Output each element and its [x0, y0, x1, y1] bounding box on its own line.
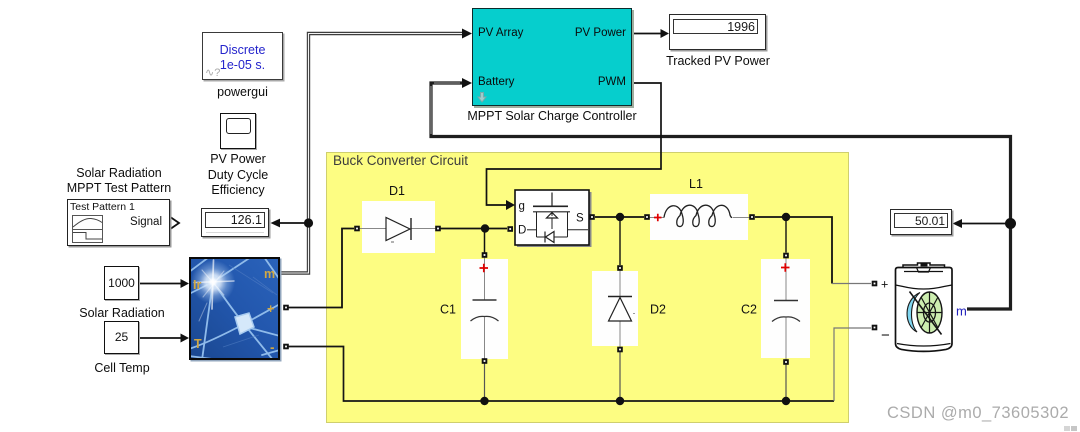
svg-text:L1: L1 — [689, 177, 703, 191]
diode D1 ports — [354, 226, 360, 232]
PV array block (solar panel image) — [189, 257, 280, 360]
signal builder label: Solar Radiation MPPT Test Pattern — [39, 166, 199, 196]
junction: D2 on ground bus — [616, 397, 624, 405]
signal builder block Test Pattern 1 — [67, 199, 170, 246]
wire: PV + to D1 — [288, 229, 354, 308]
svg-text:+: + — [881, 278, 888, 292]
svg-text:C1: C1 — [440, 303, 456, 317]
wire: C1 bottom lead to bus — [484, 363, 486, 401]
scope block (PV Power Duty Cycle Efficiency) — [220, 113, 256, 149]
PV + output port — [283, 305, 289, 311]
inductor L1 ports — [644, 214, 650, 220]
label Tracked PV Power — [658, 54, 778, 70]
MPPT block label — [452, 109, 652, 125]
MPPT Solar Charge Controller block — [472, 8, 632, 106]
wire: junction down to C1 — [484, 229, 486, 253]
wire: junction down to C2 — [785, 217, 787, 253]
capacitor C2 white box — [761, 259, 810, 358]
junction: m bus to display 126.1 — [304, 218, 313, 227]
signal builder output chevron — [171, 218, 179, 229]
capacitor C1 white box — [461, 259, 508, 359]
PV - output port — [283, 344, 289, 350]
scope label — [178, 152, 298, 199]
MOSFET block box — [515, 190, 592, 247]
inductor L1 symbol — [649, 205, 750, 226]
wire: 1000 to Ir — [139, 283, 181, 285]
svg-text:+: + — [267, 302, 274, 316]
capacitor C2 ports — [783, 253, 789, 259]
constant label Cell Temp — [62, 361, 182, 377]
svg-text:Ir: Ir — [193, 278, 201, 292]
constant 1000 — [104, 266, 139, 300]
wire: L1 to battery + corner — [755, 217, 832, 284]
svg-text:m: m — [956, 304, 967, 319]
wire: PV Power to display 1996 — [631, 33, 661, 35]
diode D1 symbol — [359, 218, 436, 243]
wire: D2 bottom lead to bus — [619, 352, 621, 401]
battery - port — [872, 325, 878, 331]
m bus wire: PV m to PV Array input — [281, 34, 462, 274]
svg-text:−: − — [881, 327, 890, 344]
junction: C2 tap — [782, 213, 790, 221]
wire: MOSFET S to L1 — [595, 216, 644, 218]
diode D2 symbol — [608, 270, 635, 347]
diode D2 white box — [592, 271, 638, 346]
PWM wire to gate — [487, 83, 662, 205]
powergui label — [202, 85, 283, 101]
svg-text:-: - — [270, 340, 275, 355]
constant label Solar Radiation — [62, 306, 182, 322]
junction: feedback bus to display 50.01 — [1005, 218, 1016, 229]
capacitor C2 symbol — [772, 258, 800, 360]
svg-text:D: D — [518, 225, 526, 237]
wire: junction down to D2 — [619, 217, 621, 265]
junction: D2 tap — [616, 213, 624, 221]
battery + port — [872, 281, 878, 287]
svg-text:D1: D1 — [389, 184, 405, 198]
wire: junction to display 50.01 — [962, 223, 1010, 225]
svg-text:T: T — [194, 337, 202, 351]
wire: 25 to T — [139, 337, 181, 339]
battery feedback bus: battery m to Battery input — [431, 83, 1011, 309]
diode D1 white box — [362, 201, 435, 253]
display 1996 (Tracked PV Power) — [669, 14, 766, 50]
wire: lead to battery + port — [832, 283, 871, 285]
MOSFET D port — [507, 226, 513, 232]
svg-text:D2: D2 — [650, 303, 666, 317]
Buck Converter Circuit area (yellow) — [326, 152, 849, 423]
area title: Buck Converter Circuit — [333, 153, 468, 169]
svg-text:C2: C2 — [741, 303, 757, 317]
svg-text:g: g — [519, 201, 525, 213]
CSDN watermark — [887, 404, 1069, 423]
junction: C2 on ground bus — [782, 397, 790, 405]
powergui block — [202, 32, 283, 80]
inductor L1 white box — [650, 194, 748, 240]
constant 25 — [104, 321, 139, 354]
junction: C1 on ground bus — [480, 397, 488, 405]
wire: C2 bottom lead to bus — [785, 364, 787, 401]
display 126.1 — [201, 208, 269, 237]
wire: junction to display 126.1 — [280, 222, 308, 224]
svg-text:m: m — [264, 267, 275, 281]
battery logo — [907, 292, 942, 335]
wire: D1 to MOSFET D — [440, 228, 507, 230]
wire: ground bus riser to battery - port — [834, 328, 871, 401]
diode D2 ports — [617, 265, 623, 271]
MOSFET S port — [589, 214, 595, 220]
junction: C1 tap — [481, 224, 489, 232]
MOSFET internal symbol — [527, 193, 588, 243]
capacitor C1 ports — [482, 252, 488, 258]
powergui corner icon — [205, 66, 220, 79]
svg-text:S: S — [576, 213, 584, 225]
battery block body — [896, 263, 953, 351]
display 50.01 — [890, 209, 952, 235]
wire: PV - to ground bus — [288, 347, 834, 402]
watermark corner blocks — [1064, 426, 1070, 431]
subsystem down-arrow icon — [477, 92, 487, 103]
capacitor C1 symbol — [471, 258, 499, 360]
